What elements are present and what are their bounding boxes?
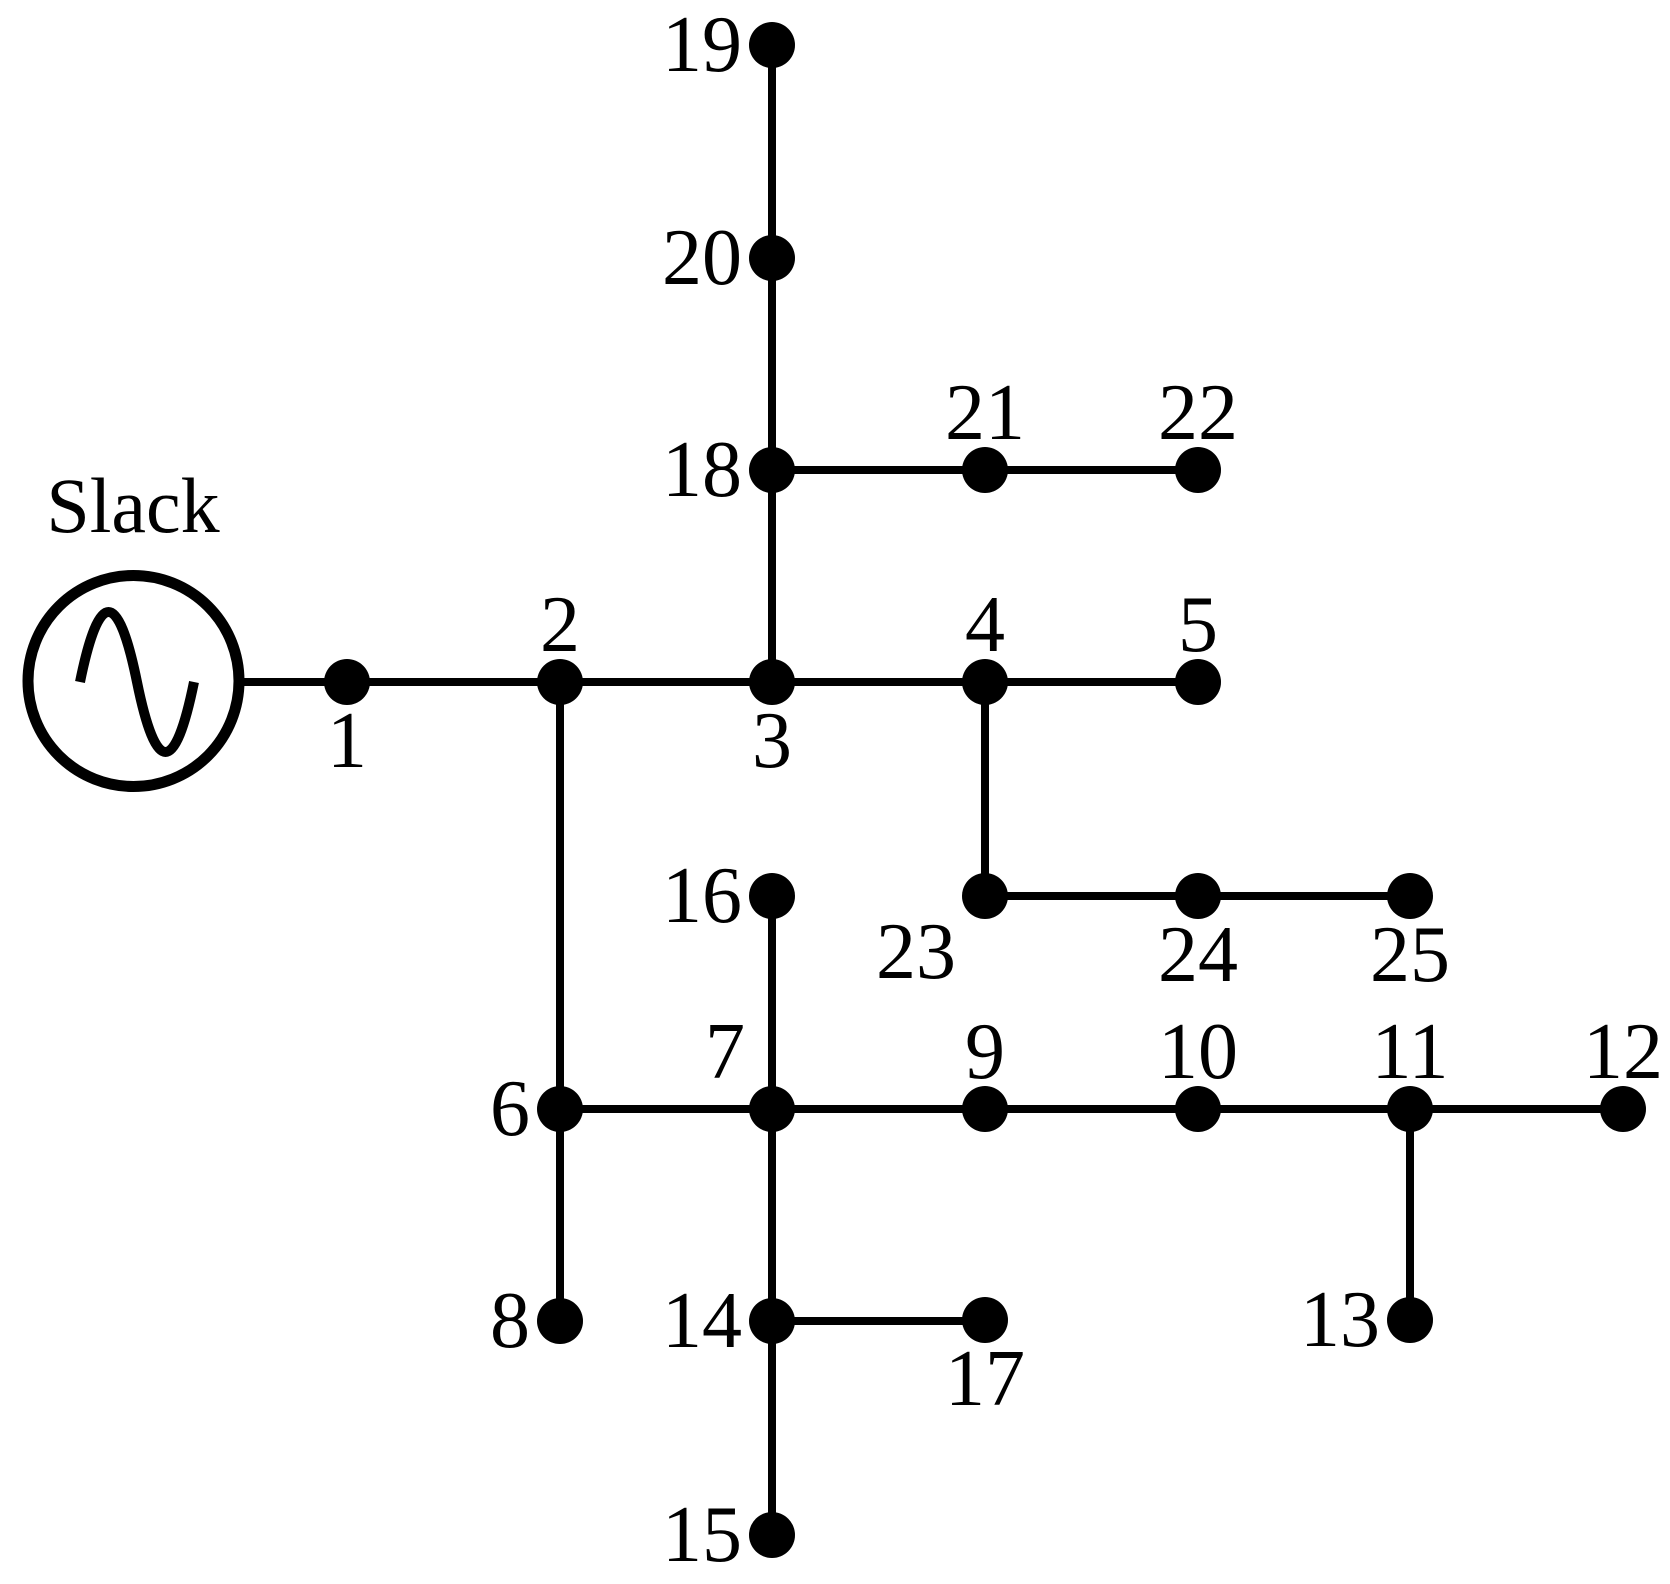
wire bus 23 to bus 24 to bus 25 (horizontal) <box>985 892 1410 900</box>
svg-text:10: 10 <box>1158 1008 1238 1096</box>
node bus 2 <box>537 659 583 705</box>
svg-text:20: 20 <box>662 214 742 302</box>
node bus 19 <box>749 22 795 68</box>
node bus 22 <box>1175 447 1221 493</box>
svg-text:23: 23 <box>876 908 956 996</box>
svg-text:16: 16 <box>662 852 742 940</box>
svg-text:22: 22 <box>1158 369 1238 457</box>
node bus 24 <box>1175 873 1221 919</box>
svg-text:14: 14 <box>662 1277 742 1365</box>
node bus 18 <box>749 447 795 493</box>
wire bus 11 to bus 13 (vertical) <box>1406 1109 1414 1320</box>
svg-text:13: 13 <box>1300 1276 1380 1364</box>
svg-text:19: 19 <box>662 1 742 89</box>
svg-text:15: 15 <box>662 1491 742 1579</box>
wire bus 18 to bus 21 to bus 22 (horizontal) <box>772 466 1198 474</box>
node bus 16 <box>749 873 795 919</box>
svg-text:2: 2 <box>540 581 580 669</box>
svg-text:24: 24 <box>1158 911 1238 999</box>
node bus 5 <box>1175 659 1221 705</box>
svg-text:21: 21 <box>945 369 1025 457</box>
node bus 25 <box>1387 873 1433 919</box>
wire bus 14 to bus 17 (horizontal) <box>772 1317 985 1325</box>
node bus 21 <box>962 447 1008 493</box>
node bus 7 <box>749 1086 795 1132</box>
node bus 1 <box>324 659 370 705</box>
wire slack to bus 1 to bus 5 (main horizontal feeder) <box>239 678 1198 686</box>
wire bus 4 to bus 23 (vertical) <box>981 682 989 896</box>
node bus 4 <box>962 659 1008 705</box>
node bus 14 <box>749 1298 795 1344</box>
node bus 12 <box>1600 1086 1646 1132</box>
node bus 10 <box>1175 1086 1221 1132</box>
svg-text:Slack: Slack <box>46 462 219 549</box>
svg-text:1: 1 <box>327 697 367 785</box>
node bus 20 <box>749 235 795 281</box>
svg-text:17: 17 <box>945 1335 1025 1423</box>
svg-text:3: 3 <box>752 697 792 785</box>
svg-text:7: 7 <box>705 1008 745 1096</box>
svg-text:9: 9 <box>965 1008 1005 1096</box>
slack source U0 (AC generator circle) <box>28 576 239 787</box>
node bus 6 <box>537 1086 583 1132</box>
node bus 17 <box>962 1297 1008 1343</box>
svg-text:11: 11 <box>1371 1008 1448 1096</box>
wire bus 6 to bus 7 to bus 12 (horizontal) <box>560 1105 1623 1113</box>
node bus 11 <box>1387 1086 1433 1132</box>
wire bus 19 to bus 20 to bus 18 to bus 3 (vertical) <box>768 45 776 682</box>
sine waveform inside slack source <box>80 612 194 752</box>
svg-text:25: 25 <box>1370 911 1450 999</box>
svg-text:8: 8 <box>490 1277 530 1365</box>
svg-text:6: 6 <box>490 1065 530 1153</box>
node bus 23 <box>962 873 1008 919</box>
node bus 15 <box>749 1512 795 1558</box>
node bus 3 <box>749 659 795 705</box>
wire bus 2 to bus 6 to bus 8 (vertical) <box>556 682 564 1321</box>
wire bus 16 to bus 7 to bus 14 to bus 15 (vertical) <box>768 896 776 1535</box>
node bus 8 <box>537 1298 583 1344</box>
svg-text:18: 18 <box>662 426 742 514</box>
node bus 13 <box>1387 1297 1433 1343</box>
svg-text:5: 5 <box>1178 581 1218 669</box>
svg-text:12: 12 <box>1583 1008 1663 1096</box>
node bus 9 <box>962 1086 1008 1132</box>
svg-text:4: 4 <box>965 581 1005 669</box>
